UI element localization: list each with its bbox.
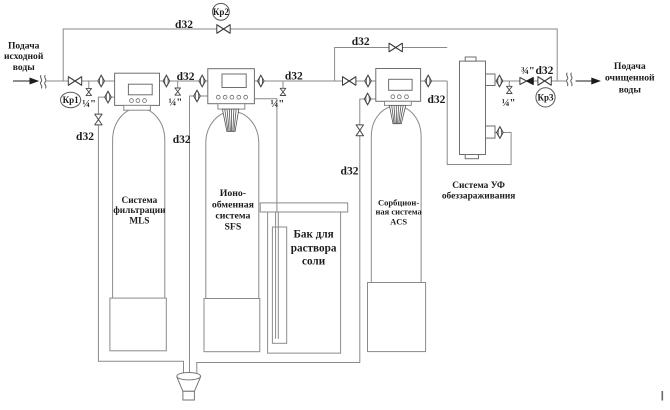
- wire: sampling tap stem 3: [282, 81, 284, 88]
- svg-text:¼": ¼": [169, 98, 183, 109]
- wire: UV inlet down-and-under from node at x447: [447, 81, 511, 165]
- UV upper port: [486, 74, 496, 86]
- svg-text:d32: d32: [285, 71, 303, 83]
- UV top flange: [465, 57, 476, 61]
- union diamond after SFS: [258, 75, 265, 87]
- svg-text:Кр2: Кр2: [213, 7, 230, 17]
- outlet arrow: [576, 78, 600, 84]
- drain valve on ACS drain: [356, 125, 363, 136]
- flexible break symbol outlet: [566, 73, 572, 86]
- ball valve on second bypass: [389, 43, 402, 52]
- svg-text:Кр1: Кр1: [63, 95, 80, 105]
- svg-text:Подача: Подача: [8, 40, 40, 51]
- inlet arrow: [13, 78, 38, 84]
- wire: brine line from SFS head into well: [254, 99, 277, 212]
- union diamond before SFS: [199, 75, 206, 87]
- UV reactor vessel: [460, 61, 486, 154]
- svg-text:Система УФ: Система УФ: [452, 181, 505, 191]
- ball valve Кр1: [68, 77, 81, 86]
- tank SFS body: [206, 112, 259, 299]
- ACS injector brush: [389, 105, 405, 123]
- svg-text:обменная: обменная: [212, 199, 255, 210]
- svg-text:d32: d32: [341, 166, 359, 178]
- svg-text:Система: Система: [121, 196, 157, 206]
- wire: ACS drain line and right collector to funnel: [197, 99, 376, 374]
- svg-text:d32: d32: [352, 36, 370, 48]
- drain valve on MLS drain: [95, 114, 102, 125]
- label: Система УФ обеззараживания: [442, 181, 515, 202]
- control head SFS: [208, 69, 255, 104]
- tank ACS base: [368, 283, 426, 352]
- sampling tap 2: [175, 88, 181, 95]
- svg-text:Ионо-: Ионо-: [220, 188, 246, 199]
- check valve 3/4": [520, 78, 533, 85]
- svg-text:SFS: SFS: [224, 222, 241, 233]
- wire: SFS drain line straight down to funnel: [190, 96, 208, 374]
- svg-text:фильтрации: фильтрации: [113, 205, 166, 216]
- svg-text:¼": ¼": [271, 99, 285, 110]
- label: Сорбционная система ACS: [375, 197, 422, 226]
- control head ACS: [376, 69, 421, 102]
- label: Система фильтрации MLS: [113, 196, 166, 227]
- wire: UV outlet line to output: [495, 80, 566, 82]
- wire: MLS drain line down to collector: [98, 97, 183, 373]
- control head SFS display: [222, 74, 246, 88]
- wire: sampling tap stem 4: [508, 81, 510, 86]
- UV bottom flange: [465, 155, 478, 159]
- ball valve Кр3: [538, 77, 551, 86]
- label: Бак для раствора соли: [291, 229, 337, 268]
- drain funnel stem: [183, 391, 195, 400]
- wire: top bypass line d32 with riser left and right: [63, 29, 557, 81]
- ball valve Кр2 on top bypass: [217, 25, 230, 34]
- label: Ионо-обменная система SFS: [212, 188, 255, 232]
- flexible break symbol inlet: [40, 75, 46, 88]
- SFS injector brush: [222, 109, 238, 131]
- union diamond ACS drain: [364, 93, 371, 105]
- tank SFS base: [204, 299, 260, 352]
- control head ACS display: [389, 79, 413, 90]
- control head SFS buttons: [216, 95, 247, 99]
- svg-text:d32: d32: [76, 131, 94, 143]
- svg-text:Кр3: Кр3: [537, 92, 554, 102]
- union diamond MLS drain: [105, 91, 112, 103]
- svg-text:система: система: [215, 211, 250, 222]
- svg-text:MLS: MLS: [129, 217, 149, 227]
- svg-text:d32: d32: [175, 19, 193, 31]
- svg-text:Подача: Подача: [614, 61, 646, 72]
- wire: main inlet line to Kp1: [47, 80, 448, 82]
- svg-text:раствора: раствора: [291, 243, 337, 255]
- control head MLS neck: [124, 105, 151, 110]
- wire: sampling tap stem 2: [177, 81, 179, 88]
- salt tank lid: [260, 203, 348, 212]
- union diamond before MLS: [98, 75, 105, 87]
- control head ACS buttons: [391, 95, 408, 99]
- union diamond UV outlet: [496, 75, 503, 87]
- svg-text:ная система: ная система: [375, 207, 422, 217]
- control head SFS neck: [218, 104, 245, 109]
- union diamond SFS drain: [194, 90, 201, 102]
- drain funnel mouth: [177, 373, 201, 380]
- union diamond before ACS: [365, 75, 372, 87]
- svg-text:¾": ¾": [521, 66, 535, 77]
- union diamond after MLS: [163, 75, 170, 87]
- svg-text:исходной: исходной: [4, 51, 44, 62]
- svg-text:воды: воды: [13, 62, 35, 73]
- svg-text:d32: d32: [427, 94, 445, 106]
- svg-text:d32: d32: [177, 71, 195, 83]
- svg-text:очищенной: очищенной: [605, 73, 655, 84]
- label: Подача очищенной воды: [605, 61, 655, 96]
- drain funnel cone: [177, 377, 200, 391]
- tank MLS base: [110, 298, 166, 351]
- wire: sampling tap stem 1: [88, 81, 90, 89]
- tag circle Кр3: [536, 88, 555, 107]
- wire: second bypass over ACS: [335, 48, 448, 82]
- svg-text:Бак для: Бак для: [293, 229, 333, 241]
- svg-text:¼": ¼": [502, 98, 516, 109]
- tank ACS body: [371, 106, 421, 283]
- tank MLS body: [113, 108, 165, 298]
- control head MLS display: [128, 84, 152, 95]
- svg-text:d32: d32: [173, 134, 191, 146]
- control head ACS neck: [385, 101, 412, 105]
- sampling tap 3: [280, 88, 286, 95]
- control head MLS: [115, 73, 160, 105]
- ball valve before ACS: [343, 77, 356, 86]
- svg-text:воды: воды: [619, 85, 642, 96]
- salt tank brine well: [272, 227, 286, 343]
- svg-text:¼": ¼": [82, 99, 96, 110]
- svg-text:соли: соли: [302, 255, 326, 267]
- union diamond after ACS: [425, 75, 432, 87]
- tag circle Кр1: [61, 92, 81, 107]
- salt tank walls: [268, 212, 341, 353]
- union diamond UV inlet: [497, 127, 504, 139]
- label: Подача исходной воды: [4, 40, 44, 73]
- svg-text:обеззараживания: обеззараживания: [442, 191, 515, 202]
- stray mark bottom-right: [661, 391, 663, 401]
- tag circle Кр2: [213, 3, 230, 20]
- sampling tap 1: [86, 88, 92, 95]
- control head MLS buttons: [130, 99, 147, 103]
- UV lower port: [486, 126, 496, 138]
- sampling tap 4: [507, 86, 513, 93]
- svg-text:ACS: ACS: [390, 217, 407, 227]
- svg-text:d32: d32: [535, 65, 553, 77]
